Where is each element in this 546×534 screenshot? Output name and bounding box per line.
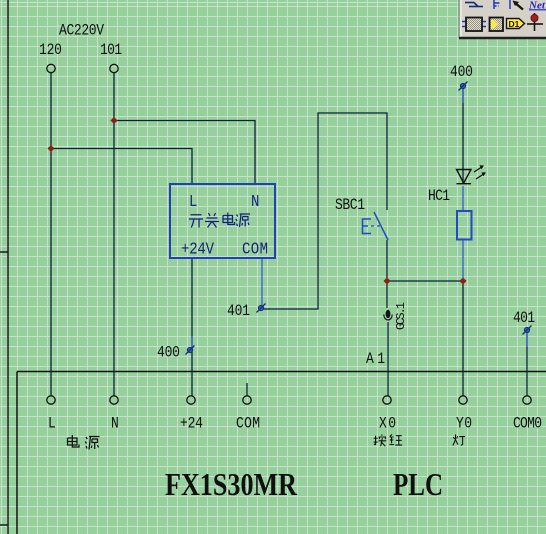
svg-text:+24: +24 xyxy=(180,415,203,432)
svg-text:401: 401 xyxy=(513,310,535,327)
svg-text:+24V: +24V xyxy=(181,239,215,259)
svg-text:L: L xyxy=(189,192,197,212)
svg-text:Y0: Y0 xyxy=(456,415,472,432)
svg-text:A1: A1 xyxy=(366,351,385,368)
svg-text:FX1S30MR: FX1S30MR xyxy=(165,466,298,502)
svg-text:401: 401 xyxy=(227,303,250,320)
svg-text:101: 101 xyxy=(100,42,122,59)
svg-text:L: L xyxy=(48,415,56,432)
svg-text:N: N xyxy=(251,192,259,212)
svg-text:PLC: PLC xyxy=(393,466,443,502)
svg-text:SBC1: SBC1 xyxy=(335,197,365,214)
svg-text:X0: X0 xyxy=(379,415,396,432)
svg-text:HC1: HC1 xyxy=(428,188,450,205)
svg-text:AC220V: AC220V xyxy=(59,22,104,39)
svg-text:N: N xyxy=(111,415,119,432)
svg-text:120: 120 xyxy=(39,42,62,59)
svg-text:COM0: COM0 xyxy=(513,415,542,432)
svg-text:400: 400 xyxy=(157,344,180,361)
svg-text:GCS.1: GCS.1 xyxy=(394,302,408,330)
svg-text:400: 400 xyxy=(450,64,473,81)
svg-text:COM: COM xyxy=(242,239,268,259)
svg-text:COM: COM xyxy=(236,415,260,432)
svg-text:D1: D1 xyxy=(509,19,520,29)
